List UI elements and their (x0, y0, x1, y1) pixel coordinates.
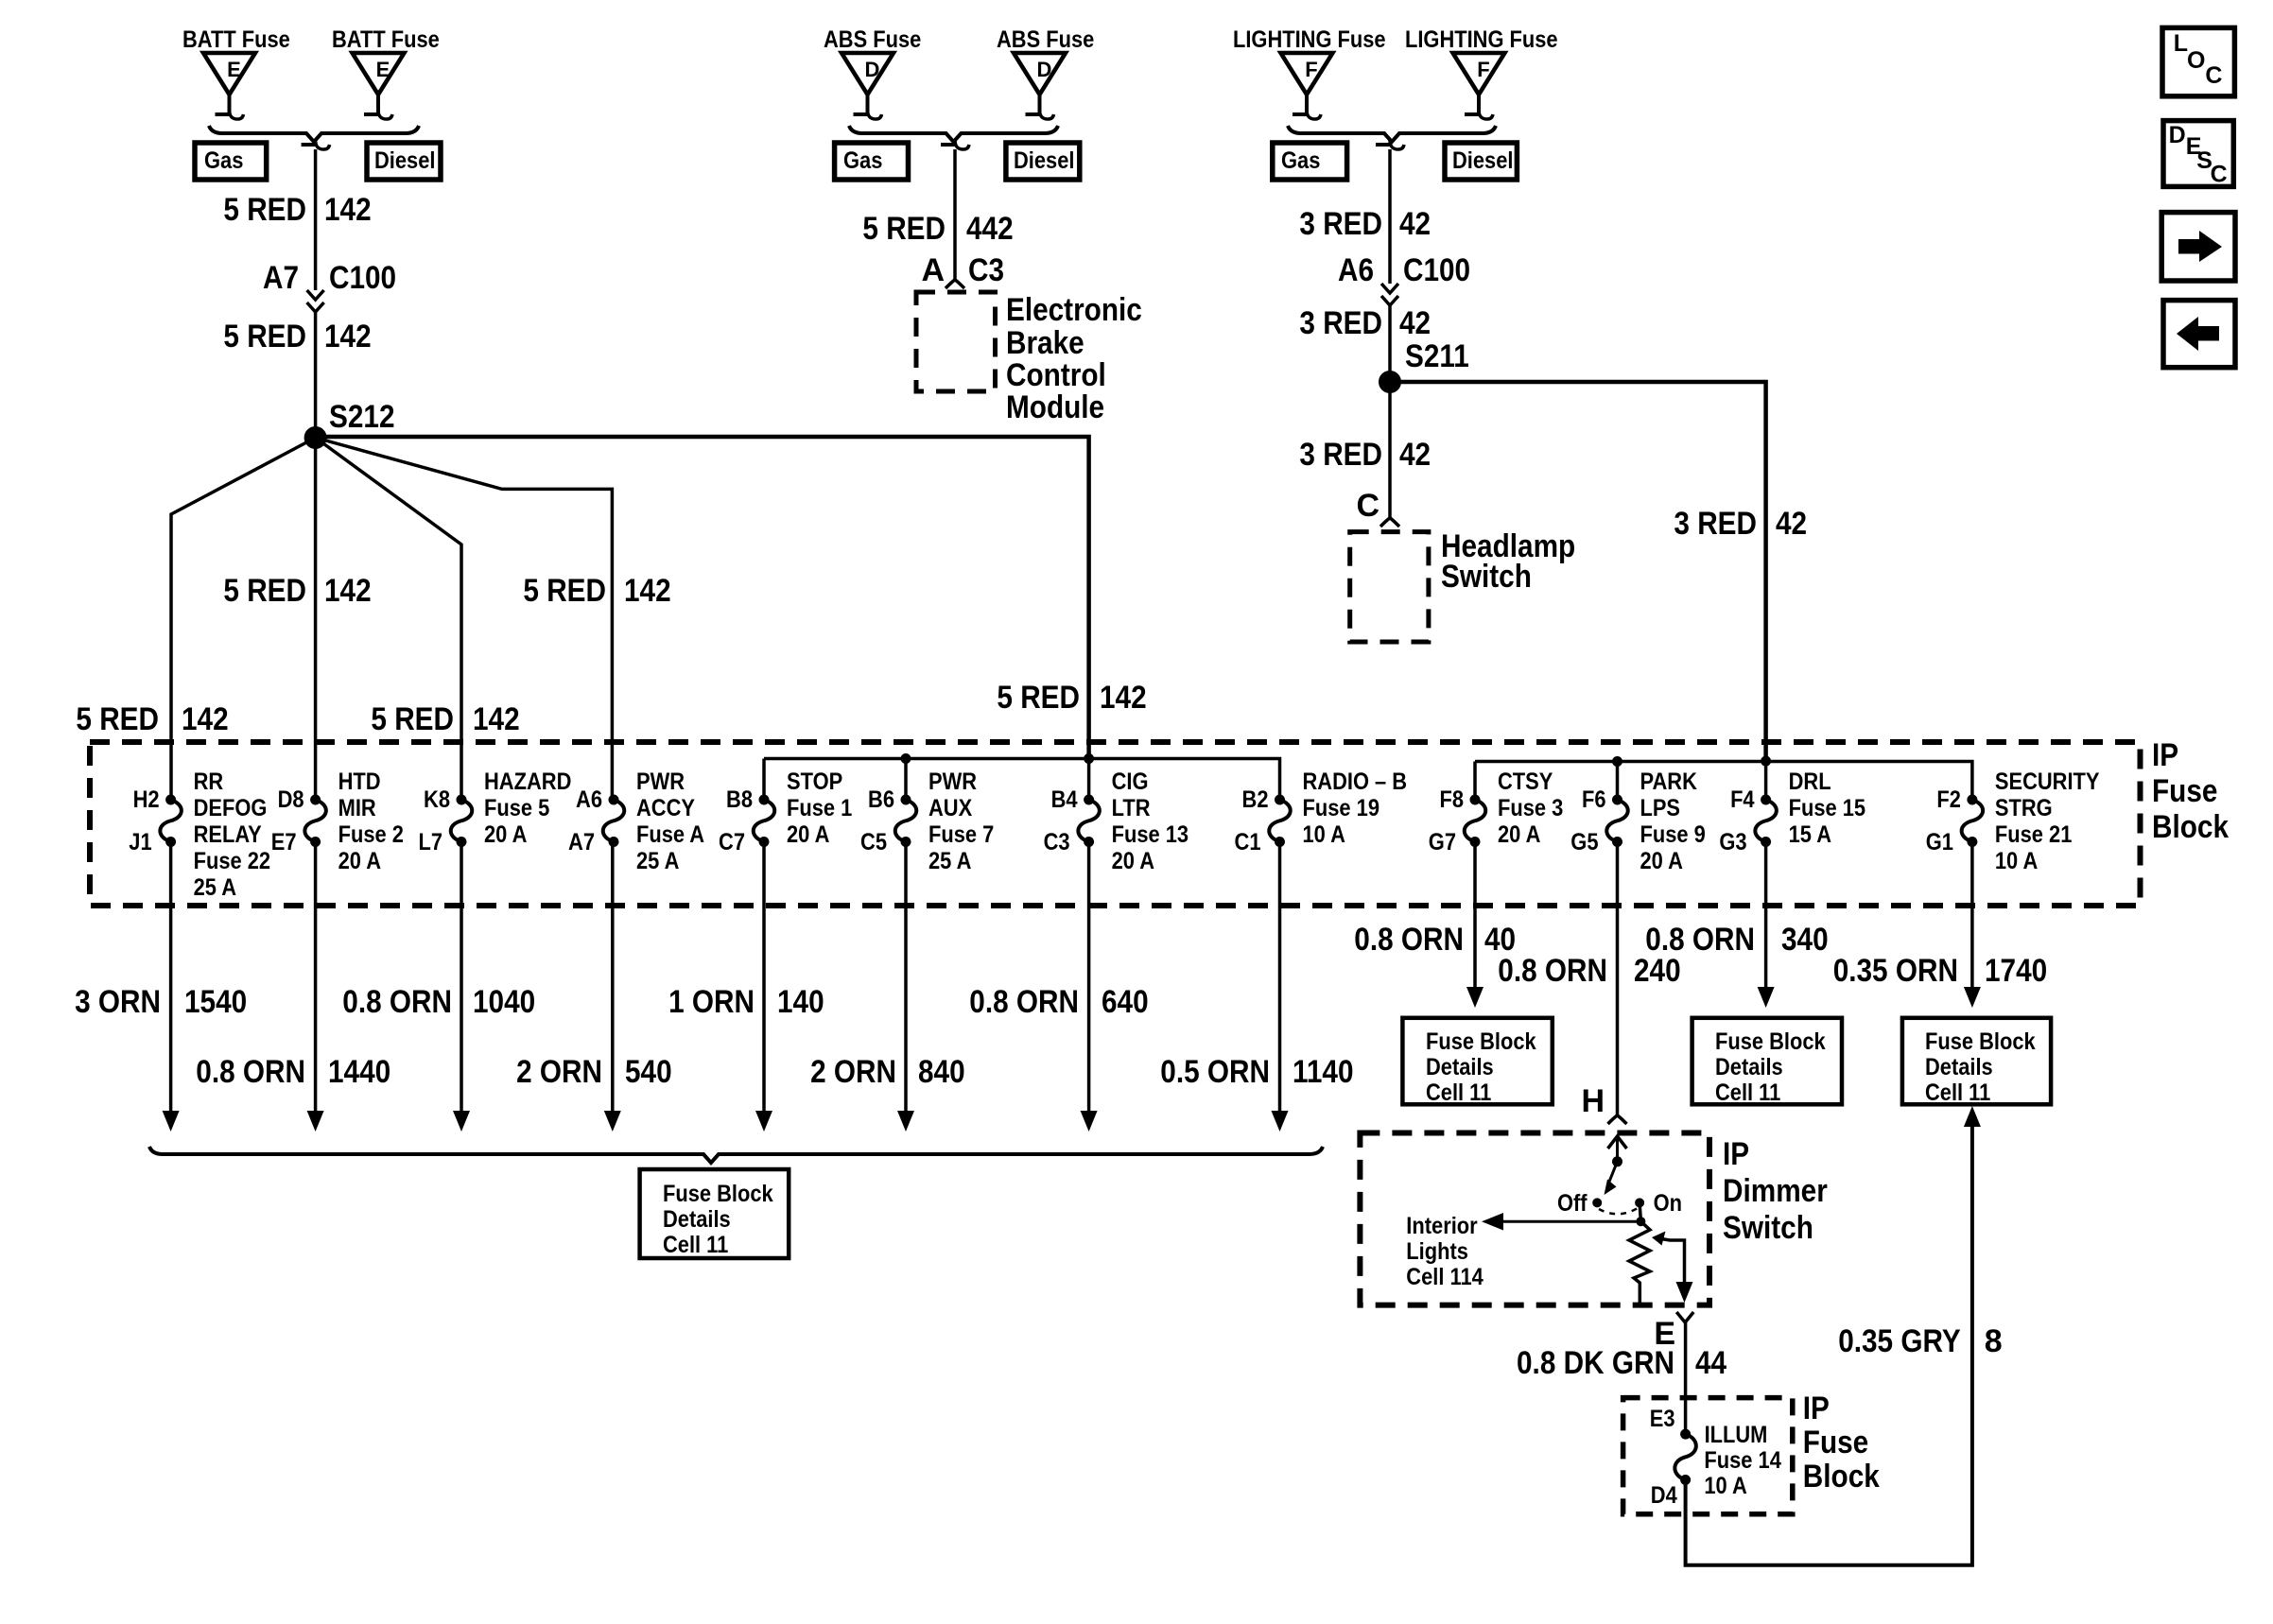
svg-text:Cell 11: Cell 11 (663, 1232, 728, 1258)
svg-text:L: L (2174, 30, 2188, 57)
svg-text:20 A: 20 A (484, 821, 527, 848)
svg-text:Fuse 1: Fuse 1 (787, 795, 852, 821)
svg-text:STRG: STRG (1995, 795, 2053, 821)
label 0.8 ORN 1040 (342, 984, 535, 1020)
svg-text:IP: IP (1803, 1391, 1830, 1426)
svg-text:Details: Details (1426, 1054, 1494, 1080)
svg-text:Fuse 22: Fuse 22 (194, 848, 271, 874)
svg-text:F6: F6 (1582, 786, 1606, 813)
svg-text:ACCY: ACCY (636, 795, 695, 821)
svg-text:5 RED: 5 RED (997, 680, 1080, 716)
svg-text:S212: S212 (329, 399, 395, 435)
svg-text:442: 442 (966, 211, 1014, 247)
label 0.8 ORN 40 (1354, 922, 1516, 958)
svg-text:42: 42 (1399, 206, 1431, 242)
label 3 RED 42 (F4 feed) (1674, 506, 1807, 542)
svg-text:C5: C5 (860, 829, 887, 855)
svg-text:20 A: 20 A (1112, 848, 1154, 874)
fuse pwr accy fuse A pins A6/A7 (568, 769, 704, 874)
svg-text:Gas: Gas (1281, 147, 1320, 174)
svg-text:A6: A6 (576, 786, 602, 813)
svg-text:RADIO – B: RADIO – B (1303, 769, 1408, 795)
svg-text:B6: B6 (868, 786, 894, 813)
brace under BATT fuses (209, 126, 419, 142)
svg-text:5 RED: 5 RED (76, 701, 159, 737)
svg-text:44: 44 (1695, 1345, 1726, 1381)
svg-text:Switch: Switch (1723, 1210, 1813, 1246)
svg-text:142: 142 (324, 192, 372, 228)
box Fuse Block Details Cell 11 (DRL) (1692, 1018, 1842, 1106)
svg-text:25 A: 25 A (194, 874, 236, 901)
wire 5 RED 142 from BATT to C100 (314, 149, 318, 290)
splice S212 (304, 399, 395, 449)
wire 5 RED 142 from C100 to S212 (314, 312, 318, 439)
svg-text:G7: G7 (1429, 829, 1456, 855)
label 2 ORN 540 (516, 1054, 672, 1090)
svg-text:Fuse 14: Fuse 14 (1704, 1447, 1781, 1474)
distribution bus F8-F2 (1475, 761, 1972, 800)
svg-text:1440: 1440 (328, 1054, 390, 1090)
svg-text:LPS: LPS (1640, 795, 1681, 821)
svg-text:Fuse: Fuse (1803, 1425, 1868, 1460)
svg-text:Interior: Interior (1406, 1213, 1478, 1239)
svg-text:240: 240 (1634, 953, 1681, 989)
svg-text:3 RED: 3 RED (1299, 437, 1382, 473)
label 5 RED 142 (wire A6) (523, 573, 670, 609)
svg-text:Details: Details (663, 1206, 731, 1233)
inline connector below LIGHTING brace (1376, 140, 1404, 149)
box Gas (ABS) (835, 143, 909, 180)
svg-text:D: D (2169, 122, 2186, 148)
svg-text:E3: E3 (1650, 1406, 1675, 1432)
svg-text:SECURITY: SECURITY (1995, 769, 2100, 795)
svg-text:0.8 ORN: 0.8 ORN (1354, 922, 1464, 958)
svg-text:0.35 ORN: 0.35 ORN (1833, 953, 1958, 989)
svg-text:F: F (1305, 58, 1317, 81)
svg-text:O: O (2187, 47, 2205, 74)
wire 0.8 ORN 640 with arrow (1081, 842, 1098, 1132)
text ABS Fuse (gas) (824, 26, 921, 53)
wire 0.5 ORN 1140 with arrow (1272, 842, 1289, 1132)
connector H into dimmer switch (1581, 1083, 1626, 1124)
svg-text:K8: K8 (424, 786, 450, 813)
svg-text:0.8 ORN: 0.8 ORN (196, 1054, 305, 1090)
fuse stop fuse 1 pins B8/C7 (719, 769, 852, 855)
svg-text:E7: E7 (271, 829, 297, 855)
svg-text:IP: IP (1723, 1136, 1749, 1172)
svg-text:Cell 11: Cell 11 (1715, 1080, 1780, 1106)
connector chevron into EBCM (946, 280, 964, 288)
svg-text:Control: Control (1006, 357, 1106, 393)
label 3 ORN 1540 (75, 984, 247, 1020)
junction dot F6 tap (1612, 756, 1622, 767)
svg-text:0.8 ORN: 0.8 ORN (969, 984, 1079, 1020)
label 0.8 ORN 1440 (196, 1054, 390, 1090)
label 0.35 GRY 8 (1838, 1323, 2003, 1359)
svg-text:20 A: 20 A (1640, 848, 1683, 874)
wire PARK to dimmer switch (1616, 842, 1620, 1116)
svg-text:42: 42 (1399, 437, 1431, 473)
svg-text:Dimmer: Dimmer (1723, 1173, 1828, 1209)
svg-text:Gas: Gas (843, 147, 882, 174)
svg-text:25 A: 25 A (928, 848, 971, 874)
svg-text:Off: Off (1557, 1190, 1588, 1217)
svg-text:DEFOG: DEFOG (194, 795, 268, 821)
wire DRL to details box (1758, 842, 1775, 1009)
svg-text:1040: 1040 (473, 984, 535, 1020)
wire 2 ORN 540 with arrow (604, 842, 621, 1132)
svg-text:ILLUM: ILLUM (1705, 1422, 1768, 1448)
svg-text:Diesel: Diesel (374, 147, 436, 174)
svg-text:L7: L7 (419, 829, 443, 855)
switch blade arrow (1605, 1162, 1618, 1195)
nav box next arrow (2161, 213, 2235, 281)
svg-text:5 RED: 5 RED (523, 573, 606, 609)
svg-text:J1: J1 (129, 829, 151, 855)
ABS fuse triangle D (diesel) (1014, 53, 1066, 119)
wire 0.8 ORN 1040 with arrow (453, 842, 470, 1132)
svg-text:Fuse 5: Fuse 5 (484, 795, 549, 821)
label 3 RED 42 (middle) (1299, 305, 1431, 341)
svg-text:142: 142 (624, 573, 671, 609)
svg-text:HAZARD: HAZARD (484, 769, 571, 795)
svg-text:Lights: Lights (1406, 1238, 1468, 1265)
svg-text:5 RED: 5 RED (223, 192, 306, 228)
fuse park lps fuse 9 pins F6/G5 (1570, 769, 1706, 874)
connector E below dimmer switch (1654, 1312, 1693, 1352)
svg-text:2 ORN: 2 ORN (810, 1054, 896, 1090)
svg-text:Details: Details (1925, 1054, 1993, 1080)
text BATT Fuse (diesel) (332, 26, 440, 53)
svg-text:C3: C3 (1044, 829, 1070, 855)
box Diesel (LIGHTING) (1445, 143, 1517, 180)
svg-text:Fuse 3: Fuse 3 (1498, 795, 1563, 821)
svg-text:1540: 1540 (184, 984, 247, 1020)
svg-text:0.8 ORN: 0.8 ORN (342, 984, 452, 1020)
wire 0.8 DK GRN 44 (1684, 1322, 1688, 1434)
wire S212 to fuse D8 (314, 438, 318, 800)
svg-text:Fuse 13: Fuse 13 (1112, 821, 1189, 848)
box Fuse Block Details Cell 11 (CTSY) (1402, 1018, 1552, 1106)
IP fuse block (ILLUM) dashed box (1623, 1398, 1793, 1514)
rheostat zigzag (1629, 1221, 1650, 1303)
svg-text:E: E (227, 58, 241, 81)
svg-text:15 A: 15 A (1789, 821, 1831, 848)
svg-text:Details: Details (1715, 1054, 1783, 1080)
wire 5 RED 442 to EBCM (953, 149, 957, 280)
svg-text:0.8 ORN: 0.8 ORN (1498, 953, 1607, 989)
svg-text:D8: D8 (278, 786, 304, 813)
text IP Fuse Block (2152, 737, 2229, 845)
contact On (1635, 1190, 1682, 1217)
box Fuse Block Details Cell 11 (bottom left) (640, 1169, 789, 1258)
connector C into headlamp switch (1356, 488, 1399, 527)
wire S211 to fuse F4 column (1390, 382, 1766, 761)
svg-text:Cell 11: Cell 11 (1925, 1080, 1990, 1106)
svg-text:A7: A7 (263, 260, 299, 296)
svg-text:142: 142 (324, 573, 372, 609)
svg-text:A: A (921, 252, 945, 288)
box Gas (LIGHTING) (1273, 143, 1347, 180)
svg-text:20 A: 20 A (1498, 821, 1540, 848)
label 2 ORN 840 (810, 1054, 965, 1090)
text ABS Fuse (diesel) (997, 26, 1094, 53)
wire SECURITY to details box (1964, 842, 1981, 1009)
svg-text:5 RED: 5 RED (223, 319, 306, 354)
junction dot F4 tap (1761, 756, 1771, 767)
svg-text:Fuse: Fuse (2152, 773, 2217, 809)
svg-text:140: 140 (777, 984, 824, 1020)
battery fuse triangle E (gas) with label (203, 53, 255, 119)
svg-text:LIGHTING Fuse: LIGHTING Fuse (1233, 26, 1386, 53)
battery fuse triangle E (diesel) with label (353, 53, 405, 119)
junction dot B4 tap (1084, 753, 1094, 764)
wire S212 to fuse K8 (316, 438, 461, 800)
text IP Fuse Block (ILLUM) (1803, 1391, 1880, 1494)
text LIGHTING Fuse (diesel) (1405, 26, 1558, 53)
svg-text:Diesel: Diesel (1014, 147, 1075, 174)
fuse drl fuse 15 pins F4/G3 (1719, 769, 1865, 855)
svg-text:Fuse Block: Fuse Block (1925, 1028, 2036, 1055)
IP fuse block dashed outline (90, 742, 2141, 906)
svg-text:5 RED: 5 RED (223, 573, 306, 609)
svg-text:8: 8 (1985, 1323, 2003, 1359)
svg-text:F4: F4 (1730, 786, 1755, 813)
EBCM dashed box (916, 292, 996, 391)
label 3 RED 42 (lower) (1299, 437, 1431, 473)
box Gas (BATT) (195, 143, 267, 180)
svg-text:DRL: DRL (1789, 769, 1831, 795)
interior lights feed arrow (1482, 1213, 1640, 1231)
svg-text:On: On (1654, 1190, 1682, 1217)
text Interior Lights Cell 114 (1406, 1213, 1484, 1290)
svg-text:B4: B4 (1051, 786, 1078, 813)
fuse illum fuse 14 pins E3/D4 (1650, 1406, 1781, 1509)
svg-text:340: 340 (1781, 922, 1829, 958)
wire S212 to fuse H2 (171, 438, 316, 800)
box Diesel (BATT) (367, 143, 441, 180)
svg-text:Fuse 21: Fuse 21 (1995, 821, 2073, 848)
svg-text:Block: Block (2152, 809, 2229, 845)
nav box previous arrow (2163, 301, 2235, 368)
svg-text:C: C (2211, 161, 2228, 187)
svg-text:142: 142 (182, 701, 229, 737)
svg-text:Gas: Gas (204, 147, 243, 174)
svg-text:0.35 GRY: 0.35 GRY (1838, 1323, 1961, 1359)
svg-text:H: H (1581, 1083, 1605, 1119)
svg-text:Fuse 15: Fuse 15 (1789, 795, 1866, 821)
svg-text:Fuse Block: Fuse Block (663, 1181, 773, 1207)
svg-text:840: 840 (918, 1054, 965, 1090)
svg-text:Brake: Brake (1006, 325, 1084, 361)
svg-text:Fuse 9: Fuse 9 (1640, 821, 1706, 848)
LIGHTING fuse triangle F (gas) (1281, 53, 1333, 119)
wire 1 ORN 140 with arrow (755, 842, 772, 1132)
svg-text:HTD: HTD (338, 769, 381, 795)
svg-text:142: 142 (324, 319, 372, 354)
svg-text:3 ORN: 3 ORN (75, 984, 161, 1020)
connector C100 A7 (263, 260, 396, 312)
label 5 RED 142 (wire K8) (371, 701, 519, 737)
svg-text:Diesel: Diesel (1452, 147, 1514, 174)
brace over fuse block details (149, 1147, 1323, 1163)
svg-text:F2: F2 (1936, 786, 1961, 813)
svg-text:Fuse Block: Fuse Block (1715, 1028, 1826, 1055)
label 3 RED 42 (upper) (1299, 206, 1431, 242)
inline connector below BATT brace (302, 140, 330, 149)
fuse hazard fuse 5 pins K8/L7 (419, 769, 572, 855)
svg-text:G5: G5 (1570, 829, 1598, 855)
svg-text:C1: C1 (1235, 829, 1261, 855)
wire S212 to fuse A6 (316, 438, 613, 800)
label 5 RED 142 (wire D8) (223, 573, 371, 609)
svg-text:CTSY: CTSY (1498, 769, 1553, 795)
box Fuse Block Details Cell 11 (SECURITY) (1902, 1018, 2051, 1106)
svg-text:A6: A6 (1338, 252, 1374, 288)
brace under ABS fuses (849, 126, 1058, 142)
ABS fuse triangle D (gas) (842, 53, 894, 119)
label 0.8 ORN 240 (1498, 953, 1680, 989)
svg-text:142: 142 (473, 701, 520, 737)
svg-text:Module: Module (1006, 389, 1104, 425)
label 0.35 ORN 1740 (1833, 953, 2048, 989)
svg-text:B2: B2 (1242, 786, 1269, 813)
svg-text:G3: G3 (1719, 829, 1746, 855)
brace under LIGHTING fuses (1288, 126, 1496, 142)
svg-text:Switch: Switch (1441, 559, 1532, 595)
svg-text:ABS Fuse: ABS Fuse (824, 26, 921, 53)
fuse rr defog relay fuse 22 pins H2/J1 (129, 769, 270, 901)
svg-text:Fuse Block: Fuse Block (1426, 1028, 1536, 1055)
svg-text:D: D (1037, 58, 1052, 81)
svg-text:1740: 1740 (1985, 953, 2047, 989)
svg-text:0.8 DK GRN: 0.8 DK GRN (1517, 1345, 1674, 1381)
svg-text:Fuse 7: Fuse 7 (928, 821, 994, 848)
svg-text:20 A: 20 A (338, 848, 381, 874)
svg-text:Fuse A: Fuse A (636, 821, 704, 848)
svg-text:25 A: 25 A (636, 848, 679, 874)
fuse ctsy fuse 3 pins F8/G7 (1429, 769, 1564, 855)
svg-text:640: 640 (1102, 984, 1149, 1020)
svg-text:D4: D4 (1651, 1482, 1677, 1509)
svg-text:PARK: PARK (1640, 769, 1697, 795)
label 5 RED 142 (wire H2) (76, 701, 228, 737)
svg-text:C7: C7 (719, 829, 745, 855)
svg-text:PWR: PWR (928, 769, 977, 795)
svg-text:Fuse 2: Fuse 2 (338, 821, 404, 848)
svg-text:Electronic: Electronic (1006, 292, 1142, 328)
svg-text:D: D (865, 58, 880, 81)
svg-text:STOP: STOP (787, 769, 842, 795)
svg-text:Cell 114: Cell 114 (1406, 1264, 1484, 1290)
label 0.8 DK GRN 44 (1517, 1345, 1726, 1381)
wire 3 RED 42 to S211 (1388, 305, 1392, 382)
headlamp switch dashed box (1350, 532, 1429, 642)
label 0.8 ORN 340 (1645, 922, 1828, 958)
text LIGHTING Fuse (gas) (1233, 26, 1386, 53)
svg-text:C100: C100 (329, 260, 396, 296)
svg-text:B8: B8 (726, 786, 753, 813)
text IP Dimmer Switch (1723, 1136, 1828, 1246)
svg-text:5 RED: 5 RED (371, 701, 454, 737)
svg-text:LIGHTING Fuse: LIGHTING Fuse (1405, 26, 1558, 53)
svg-text:142: 142 (1100, 680, 1147, 716)
svg-text:Cell 11: Cell 11 (1426, 1080, 1491, 1106)
text Headlamp Switch (1441, 528, 1575, 595)
wire CTSY to details box (1466, 842, 1484, 1009)
svg-text:42: 42 (1776, 506, 1807, 542)
svg-text:AUX: AUX (928, 795, 972, 821)
LIGHTING fuse triangle F (diesel) (1453, 53, 1505, 119)
dashed travel arc (1599, 1208, 1638, 1214)
svg-text:C100: C100 (1403, 252, 1470, 288)
svg-text:C: C (2205, 62, 2222, 89)
svg-text:LTR: LTR (1112, 795, 1151, 821)
svg-text:42: 42 (1399, 305, 1431, 341)
svg-text:20 A: 20 A (787, 821, 829, 848)
fuse radio-b fuse 19 pins B2/C1 (1235, 769, 1408, 855)
svg-text:MIR: MIR (338, 795, 376, 821)
wire S212 trunk to B-row (316, 437, 1089, 759)
label 5 RED 142 (BATT lower) (223, 319, 371, 354)
svg-text:PWR: PWR (636, 769, 685, 795)
svg-text:RR: RR (194, 769, 224, 795)
svg-text:IP: IP (2152, 737, 2178, 773)
junction dot B6 tap (901, 753, 911, 764)
svg-text:F8: F8 (1440, 786, 1465, 813)
svg-text:3 RED: 3 RED (1299, 206, 1382, 242)
label 5 RED 142 (BATT upper) (223, 192, 371, 228)
svg-text:RELAY: RELAY (194, 821, 262, 848)
fuse pwr aux fuse 7 pins B6/C5 (860, 769, 994, 874)
svg-text:3 RED: 3 RED (1674, 506, 1757, 542)
text Electronic Brake Control Module (1006, 292, 1142, 425)
contact Off (1557, 1190, 1602, 1217)
distribution bus B8-B2 (764, 759, 1280, 801)
svg-text:ABS Fuse: ABS Fuse (997, 26, 1094, 53)
label 0.5 ORN 1140 (1160, 1054, 1353, 1090)
IP dimmer switch dashed box (1360, 1133, 1709, 1305)
rheostat wiper arrow (1652, 1232, 1693, 1304)
svg-text:BATT Fuse: BATT Fuse (182, 26, 290, 53)
wire 3 ORN 1540 with arrow (163, 842, 180, 1132)
svg-text:H2: H2 (133, 786, 160, 813)
box Diesel (ABS) (1006, 143, 1080, 180)
fuse cig ltr fuse 13 pins B4/C3 (1044, 769, 1189, 874)
wire 2 ORN 840 with arrow (897, 842, 914, 1132)
svg-text:1140: 1140 (1293, 1054, 1354, 1090)
svg-text:3 RED: 3 RED (1299, 305, 1382, 341)
connector A C3 (921, 252, 1004, 288)
svg-text:G1: G1 (1926, 829, 1953, 855)
connector C100 A6 (1338, 252, 1470, 305)
wire 0.35 GRY 8 return (1686, 1106, 1981, 1565)
splice S211 (1379, 338, 1469, 393)
wire S211 to headlamp switch (1388, 382, 1392, 519)
svg-text:F: F (1477, 58, 1489, 81)
label 0.8 ORN 640 (969, 984, 1148, 1020)
text BATT Fuse (gas) (182, 26, 290, 53)
wire On to wiper junction (1636, 1202, 1645, 1226)
svg-text:1 ORN: 1 ORN (668, 984, 755, 1020)
svg-text:S211: S211 (1405, 338, 1469, 374)
nav box LOC (2162, 27, 2234, 95)
svg-text:A7: A7 (568, 829, 595, 855)
svg-text:540: 540 (625, 1054, 672, 1090)
svg-text:Block: Block (1803, 1459, 1880, 1494)
dimmer input stub with open arrow (1608, 1136, 1627, 1166)
wire 0.8 ORN 1440 with arrow (307, 842, 324, 1132)
